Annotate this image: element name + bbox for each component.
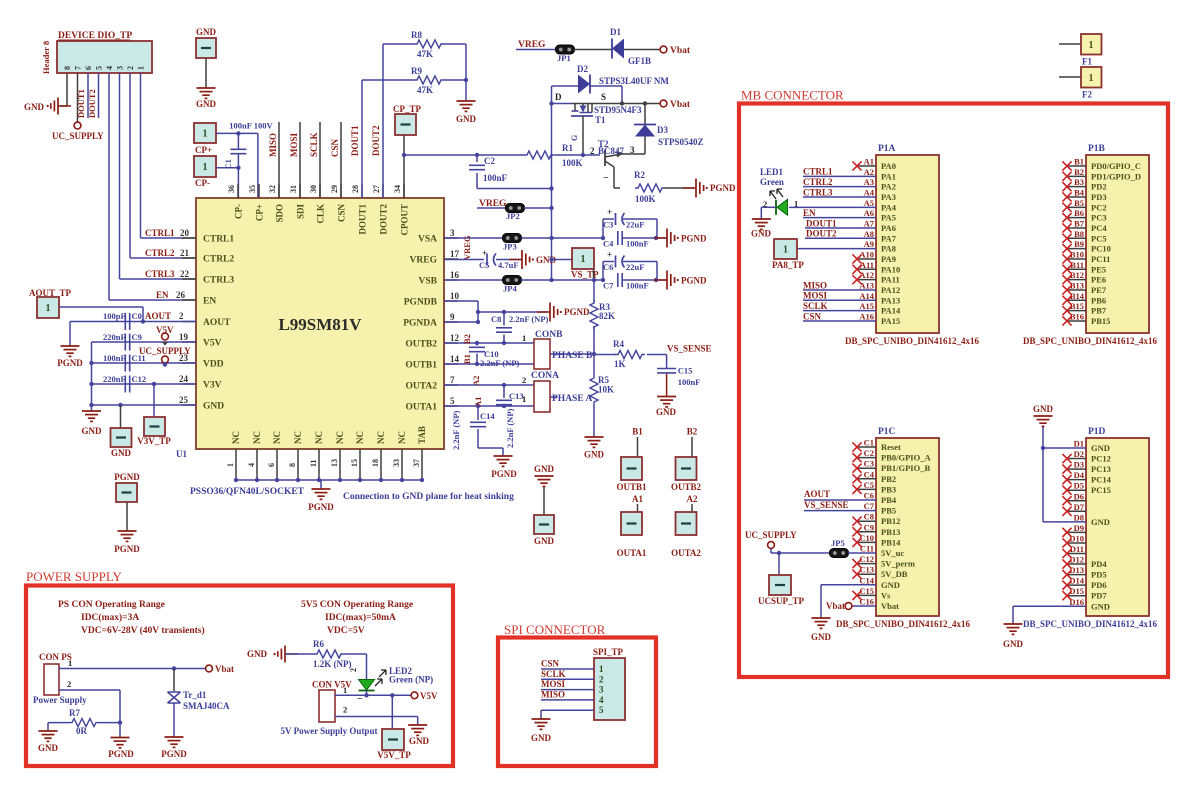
- svg-text:C7: C7: [864, 501, 875, 511]
- svg-text:2.2nF (NP): 2.2nF (NP): [505, 408, 515, 448]
- svg-text:VREG: VREG: [410, 256, 438, 266]
- svg-text:B9: B9: [1074, 239, 1084, 249]
- svg-text:PB0/GPIO_A: PB0/GPIO_A: [881, 453, 931, 463]
- svg-text:22uF: 22uF: [626, 262, 644, 272]
- svg-text:Green (NP): Green (NP): [389, 675, 433, 685]
- svg-text:GND: GND: [534, 536, 555, 546]
- svg-text:Reset: Reset: [881, 442, 901, 452]
- svg-text:PGND: PGND: [681, 276, 707, 286]
- svg-text:GND: GND: [656, 407, 677, 417]
- svg-text:GND: GND: [1003, 639, 1024, 649]
- svg-text:PA7: PA7: [881, 233, 897, 243]
- svg-text:1.2K (NP): 1.2K (NP): [313, 659, 352, 669]
- svg-text:CP_TP: CP_TP: [393, 104, 422, 114]
- svg-text:D3: D3: [1074, 460, 1084, 470]
- svg-text:0R: 0R: [76, 726, 88, 736]
- svg-text:D2: D2: [1074, 449, 1084, 459]
- svg-text:PGND: PGND: [161, 749, 187, 759]
- svg-text:PA10: PA10: [881, 264, 900, 274]
- svg-text:A2: A2: [864, 167, 874, 177]
- svg-text:R7: R7: [69, 708, 80, 718]
- svg-text:14: 14: [450, 354, 460, 364]
- svg-text:PGND: PGND: [564, 307, 590, 317]
- svg-text:B1: B1: [462, 354, 472, 364]
- svg-text:PB4: PB4: [881, 495, 897, 505]
- svg-text:C14: C14: [480, 411, 495, 421]
- svg-text:D1: D1: [610, 27, 621, 37]
- svg-text:1: 1: [581, 254, 586, 265]
- svg-text:B2: B2: [462, 334, 472, 344]
- svg-text:7: 7: [74, 66, 83, 70]
- svg-text:1: 1: [783, 245, 788, 256]
- svg-text:B7: B7: [1074, 218, 1085, 228]
- svg-text:PGND: PGND: [108, 749, 134, 759]
- svg-text:5V_DB: 5V_DB: [881, 569, 908, 579]
- svg-text:5V5 CON Operating Range: 5V5 CON Operating Range: [301, 600, 413, 610]
- svg-text:STPS3L40UF NM: STPS3L40UF NM: [599, 76, 669, 86]
- svg-text:1: 1: [137, 66, 146, 70]
- svg-text:36: 36: [227, 185, 236, 193]
- svg-text:30: 30: [309, 185, 318, 193]
- svg-text:CP+: CP+: [195, 145, 212, 155]
- svg-text:GND: GND: [1091, 601, 1110, 611]
- svg-text:16: 16: [450, 270, 460, 280]
- svg-text:2: 2: [763, 199, 767, 209]
- svg-text:GND: GND: [203, 402, 224, 412]
- svg-text:CP+: CP+: [255, 204, 265, 221]
- svg-text:NC: NC: [376, 431, 386, 444]
- svg-text:PB15: PB15: [1091, 316, 1110, 326]
- svg-text:CON PS: CON PS: [39, 652, 72, 662]
- svg-text:2: 2: [343, 705, 347, 715]
- svg-text:IDC(max)=3A: IDC(max)=3A: [81, 612, 139, 623]
- svg-text:9: 9: [450, 312, 455, 322]
- svg-text:C9: C9: [864, 522, 874, 532]
- svg-text:V5V_TP: V5V_TP: [377, 750, 411, 760]
- svg-text:13: 13: [330, 459, 339, 467]
- svg-text:B14: B14: [1070, 291, 1085, 301]
- svg-text:OUTB2: OUTB2: [405, 340, 437, 350]
- svg-text:CSN: CSN: [337, 204, 347, 223]
- svg-text:U1: U1: [176, 449, 187, 459]
- svg-text:D1: D1: [1074, 439, 1084, 449]
- svg-text:PC4: PC4: [1091, 223, 1107, 233]
- svg-text:MISO: MISO: [803, 280, 827, 290]
- svg-text:Tr_d1: Tr_d1: [183, 690, 207, 700]
- svg-text:+: +: [607, 250, 612, 260]
- svg-text:UCSUP_TP: UCSUP_TP: [758, 596, 805, 606]
- svg-text:GND: GND: [881, 580, 900, 590]
- svg-text:−: −: [357, 694, 363, 705]
- svg-text:DOUT2: DOUT2: [371, 125, 381, 156]
- svg-text:VS_SENSE: VS_SENSE: [804, 500, 849, 510]
- svg-text:GND: GND: [1091, 443, 1110, 453]
- svg-text:PA11: PA11: [881, 275, 900, 285]
- svg-text:P1D: P1D: [1088, 427, 1106, 437]
- svg-text:47K: 47K: [417, 49, 433, 59]
- svg-text:B15: B15: [1070, 301, 1084, 311]
- svg-text:OUTA1: OUTA1: [406, 403, 438, 413]
- svg-text:GF1B: GF1B: [628, 56, 651, 66]
- svg-text:PC14: PC14: [1091, 475, 1112, 485]
- svg-text:PD4: PD4: [1091, 559, 1107, 569]
- svg-text:100pF: 100pF: [103, 311, 126, 321]
- svg-text:+: +: [607, 207, 612, 217]
- svg-text:PD5: PD5: [1091, 570, 1107, 580]
- svg-text:SMAJ40CA: SMAJ40CA: [183, 701, 230, 711]
- svg-text:PB1/GPIO_B: PB1/GPIO_B: [881, 463, 930, 473]
- svg-text:C11: C11: [860, 544, 874, 554]
- svg-text:PHASE A: PHASE A: [552, 394, 593, 404]
- svg-text:PD0/GPIO_C: PD0/GPIO_C: [1091, 161, 1141, 171]
- svg-text:5V_perm: 5V_perm: [881, 559, 915, 569]
- svg-text:PC12: PC12: [1091, 454, 1111, 464]
- svg-text:C0: C0: [132, 311, 142, 321]
- svg-text:19: 19: [179, 332, 189, 342]
- svg-text:1: 1: [46, 303, 51, 314]
- svg-text:B2: B2: [687, 427, 698, 437]
- svg-text:CTRL3: CTRL3: [145, 269, 175, 279]
- svg-text:R1: R1: [562, 143, 573, 153]
- svg-text:Vbat: Vbat: [215, 664, 234, 674]
- svg-text:PGND: PGND: [114, 472, 140, 482]
- svg-text:R2: R2: [634, 170, 645, 180]
- svg-text:R8: R8: [411, 30, 422, 40]
- svg-text:3: 3: [599, 685, 604, 695]
- svg-text:T1: T1: [595, 115, 606, 125]
- svg-text:PA0: PA0: [881, 161, 896, 171]
- svg-text:1: 1: [522, 333, 526, 343]
- svg-text:PC10: PC10: [1091, 244, 1111, 254]
- svg-text:34: 34: [393, 185, 402, 193]
- svg-text:100K: 100K: [562, 158, 583, 168]
- svg-text:26: 26: [176, 290, 186, 300]
- svg-text:C6: C6: [603, 262, 613, 272]
- svg-text:BC847: BC847: [598, 146, 625, 156]
- svg-text:23: 23: [179, 353, 189, 363]
- svg-text:PA13: PA13: [881, 295, 900, 305]
- svg-text:B3: B3: [1074, 177, 1084, 187]
- svg-text:D3: D3: [657, 125, 668, 135]
- svg-text:47K: 47K: [417, 85, 433, 95]
- svg-text:CTRL2: CTRL2: [203, 255, 234, 265]
- svg-text:PA9: PA9: [881, 254, 896, 264]
- svg-text:C6: C6: [864, 491, 874, 501]
- svg-text:GND: GND: [584, 450, 605, 460]
- svg-text:PGND: PGND: [491, 469, 517, 479]
- svg-text:A1: A1: [864, 157, 874, 167]
- svg-text:1: 1: [599, 664, 604, 674]
- svg-text:11: 11: [309, 459, 318, 467]
- svg-text:5: 5: [95, 66, 104, 70]
- svg-text:2: 2: [590, 146, 595, 156]
- svg-text:−: −: [603, 173, 609, 184]
- svg-text:C3: C3: [864, 459, 874, 469]
- svg-text:C8: C8: [491, 314, 501, 324]
- svg-text:8: 8: [288, 463, 297, 467]
- svg-text:SPI CONNECTOR: SPI CONNECTOR: [504, 622, 606, 637]
- svg-text:6: 6: [84, 66, 93, 70]
- svg-text:A1: A1: [473, 397, 483, 407]
- svg-text:PD6: PD6: [1091, 580, 1107, 590]
- svg-text:B5: B5: [1074, 198, 1084, 208]
- svg-text:B8: B8: [1074, 229, 1084, 239]
- svg-text:1: 1: [68, 658, 72, 668]
- svg-text:4: 4: [247, 463, 256, 467]
- svg-text:2.2nF (NP): 2.2nF (NP): [451, 410, 461, 450]
- svg-text:2: 2: [599, 674, 604, 684]
- svg-text:10K: 10K: [598, 385, 614, 395]
- svg-text:2: 2: [349, 668, 358, 672]
- svg-text:NC: NC: [355, 431, 365, 444]
- svg-text:DB_SPC_UNIBO_DIN41612_4x16: DB_SPC_UNIBO_DIN41612_4x16: [1023, 619, 1158, 629]
- svg-text:Vbat: Vbat: [670, 46, 691, 56]
- svg-text:5: 5: [450, 396, 455, 406]
- svg-text:28: 28: [351, 185, 360, 193]
- svg-text:1: 1: [226, 463, 235, 467]
- svg-text:PB6: PB6: [1091, 295, 1106, 305]
- svg-text:V5V: V5V: [203, 339, 222, 349]
- svg-text:PHASE B: PHASE B: [552, 351, 593, 361]
- svg-text:32: 32: [268, 185, 277, 193]
- svg-text:NC: NC: [231, 431, 241, 444]
- svg-text:SPI_TP: SPI_TP: [593, 647, 624, 657]
- svg-text:C3: C3: [603, 220, 613, 230]
- svg-text:PA8_TP: PA8_TP: [772, 260, 804, 270]
- svg-text:GND: GND: [1091, 517, 1110, 527]
- svg-text:CTRL3: CTRL3: [203, 276, 234, 286]
- svg-text:MOSI: MOSI: [541, 679, 566, 689]
- svg-text:CTRL1: CTRL1: [803, 167, 833, 177]
- svg-text:1: 1: [1089, 73, 1094, 84]
- svg-text:PA5: PA5: [881, 213, 896, 223]
- svg-text:Header 8: Header 8: [41, 41, 51, 74]
- svg-text:LED1: LED1: [760, 167, 784, 177]
- svg-text:PD2: PD2: [1091, 182, 1107, 192]
- svg-text:27: 27: [372, 185, 381, 193]
- svg-text:VREG: VREG: [518, 40, 546, 50]
- svg-text:C1: C1: [864, 438, 874, 448]
- svg-text:OUTA2: OUTA2: [671, 548, 701, 558]
- svg-text:PC5: PC5: [1091, 233, 1107, 243]
- svg-text:100nF 100V: 100nF 100V: [229, 121, 273, 131]
- svg-text:B1: B1: [1074, 157, 1084, 167]
- svg-text:DOUT1: DOUT1: [358, 204, 368, 235]
- svg-text:100K: 100K: [635, 194, 656, 204]
- svg-text:1: 1: [794, 199, 798, 209]
- svg-text:VSB: VSB: [419, 277, 438, 287]
- svg-text:GND: GND: [811, 632, 832, 642]
- svg-text:220nF: 220nF: [103, 374, 126, 384]
- svg-text:1: 1: [203, 129, 208, 140]
- svg-text:C2: C2: [484, 156, 495, 166]
- svg-text:PGND: PGND: [681, 234, 707, 244]
- svg-text:G: G: [570, 135, 579, 141]
- svg-text:PD7: PD7: [1091, 591, 1107, 601]
- svg-text:PGND: PGND: [308, 502, 334, 512]
- svg-text:4: 4: [105, 66, 114, 70]
- svg-text:B6: B6: [1074, 208, 1084, 218]
- svg-text:PA1: PA1: [881, 171, 896, 181]
- svg-text:AOUT: AOUT: [804, 489, 830, 499]
- svg-text:2: 2: [179, 311, 184, 321]
- svg-text:PD3: PD3: [1091, 192, 1107, 202]
- svg-text:SCLK: SCLK: [541, 669, 566, 679]
- svg-text:PC3: PC3: [1091, 213, 1107, 223]
- svg-text:R6: R6: [313, 639, 324, 649]
- svg-text:B16: B16: [1070, 311, 1084, 321]
- svg-text:VSA: VSA: [418, 235, 437, 245]
- svg-text:DOUT2: DOUT2: [806, 229, 837, 239]
- svg-text:100nF: 100nF: [103, 353, 126, 363]
- svg-text:PE7: PE7: [1091, 285, 1107, 295]
- svg-text:OUTA1: OUTA1: [617, 548, 647, 558]
- svg-text:DB_SPC_UNIBO_DIN41612_4x16: DB_SPC_UNIBO_DIN41612_4x16: [845, 336, 980, 346]
- svg-text:B4: B4: [1074, 187, 1085, 197]
- svg-text:A2: A2: [687, 494, 698, 504]
- svg-text:PS CON Operating Range: PS CON Operating Range: [58, 600, 165, 610]
- svg-text:CSN: CSN: [803, 311, 822, 321]
- svg-text:D7: D7: [1074, 502, 1085, 512]
- svg-text:D: D: [555, 92, 562, 102]
- svg-text:10: 10: [450, 291, 460, 301]
- svg-text:A6: A6: [864, 208, 874, 218]
- svg-text:D9: D9: [1074, 523, 1084, 533]
- svg-text:4.7uF: 4.7uF: [498, 260, 519, 270]
- svg-text:35: 35: [248, 185, 257, 193]
- svg-text:AOUT: AOUT: [145, 311, 171, 321]
- svg-text:DOUT1: DOUT1: [350, 125, 360, 156]
- svg-text:PGNDB: PGNDB: [404, 298, 438, 308]
- svg-text:1K: 1K: [614, 359, 626, 369]
- svg-text:3: 3: [116, 66, 125, 70]
- svg-text:18: 18: [371, 459, 380, 467]
- svg-text:GND: GND: [247, 649, 268, 659]
- svg-text:B1: B1: [632, 427, 643, 437]
- svg-text:GND: GND: [82, 426, 103, 436]
- svg-text:100nF: 100nF: [483, 173, 508, 183]
- svg-text:DOUT2: DOUT2: [87, 89, 97, 118]
- svg-text:Connection to GND plane for he: Connection to GND plane for heat sinking: [343, 492, 514, 502]
- svg-text:Vbat: Vbat: [670, 100, 691, 110]
- svg-text:NC: NC: [335, 431, 345, 444]
- svg-text:MB CONNECTOR: MB CONNECTOR: [741, 88, 844, 103]
- svg-text:NC: NC: [252, 431, 262, 444]
- svg-text:V5V: V5V: [420, 691, 438, 701]
- svg-text:PA4: PA4: [881, 202, 897, 212]
- svg-text:PA3: PA3: [881, 192, 896, 202]
- svg-text:DOUT1: DOUT1: [76, 89, 86, 118]
- svg-text:D4: D4: [1074, 470, 1085, 480]
- svg-text:CLK: CLK: [316, 204, 326, 224]
- svg-text:GND: GND: [24, 102, 45, 112]
- svg-text:A3: A3: [864, 177, 874, 187]
- svg-text:P1A: P1A: [878, 144, 896, 154]
- svg-text:DB_SPC_UNIBO_DIN41612_4x16: DB_SPC_UNIBO_DIN41612_4x16: [1023, 336, 1158, 346]
- svg-text:2: 2: [126, 66, 135, 70]
- svg-text:GND: GND: [531, 733, 552, 743]
- svg-text:SCLK: SCLK: [309, 132, 319, 157]
- svg-text:VREG: VREG: [462, 235, 472, 260]
- svg-text:3: 3: [450, 228, 455, 238]
- svg-text:Vbat: Vbat: [881, 601, 899, 611]
- svg-text:C12: C12: [132, 374, 147, 384]
- svg-text:CP-: CP-: [234, 204, 244, 219]
- svg-text:MOSI: MOSI: [289, 132, 299, 157]
- svg-text:B13: B13: [1070, 280, 1084, 290]
- svg-text:C14: C14: [859, 575, 874, 585]
- svg-text:PC15: PC15: [1091, 485, 1111, 495]
- svg-text:R4: R4: [613, 339, 624, 349]
- svg-text:B2: B2: [1074, 167, 1084, 177]
- svg-text:1: 1: [343, 685, 347, 695]
- svg-text:B11: B11: [1070, 260, 1084, 270]
- svg-text:37: 37: [412, 459, 421, 467]
- svg-text:L99SM81V: L99SM81V: [278, 315, 362, 334]
- svg-text:15: 15: [350, 459, 359, 467]
- svg-text:Vbat: Vbat: [826, 601, 845, 611]
- svg-text:MOSI: MOSI: [803, 291, 828, 301]
- svg-text:29: 29: [330, 185, 339, 193]
- svg-text:C5: C5: [479, 260, 489, 270]
- svg-text:A2: A2: [471, 376, 481, 386]
- svg-text:2: 2: [67, 679, 71, 689]
- svg-text:UC_SUPPLY: UC_SUPPLY: [52, 131, 104, 141]
- svg-text:PE6: PE6: [1091, 275, 1106, 285]
- svg-text:A16: A16: [859, 311, 874, 321]
- svg-text:NC: NC: [314, 431, 324, 444]
- svg-text:D5: D5: [1074, 481, 1084, 491]
- svg-text:GND: GND: [196, 27, 217, 37]
- svg-text:R5: R5: [598, 375, 609, 385]
- svg-text:CTRL1: CTRL1: [203, 235, 234, 245]
- svg-text:100nF: 100nF: [678, 377, 701, 387]
- svg-text:C16: C16: [859, 597, 874, 607]
- svg-text:JP2: JP2: [506, 211, 520, 221]
- svg-text:1: 1: [1089, 40, 1094, 51]
- svg-text:GND: GND: [111, 448, 132, 458]
- svg-text:D6: D6: [1074, 491, 1084, 501]
- svg-text:100nF: 100nF: [626, 281, 649, 291]
- svg-text:DOUT2: DOUT2: [379, 204, 389, 235]
- svg-text:MISO: MISO: [541, 689, 565, 699]
- svg-text:PA6: PA6: [881, 223, 896, 233]
- svg-text:A7: A7: [864, 218, 875, 228]
- svg-text:C15: C15: [678, 366, 693, 376]
- svg-text:PA2: PA2: [881, 182, 896, 192]
- svg-text:CP-: CP-: [195, 178, 210, 188]
- svg-text:CTRL1: CTRL1: [145, 228, 175, 238]
- svg-text:CSN: CSN: [541, 659, 560, 669]
- svg-text:17: 17: [450, 249, 460, 259]
- svg-text:31: 31: [289, 185, 298, 193]
- svg-text:A15: A15: [859, 301, 874, 311]
- svg-text:PB7: PB7: [1091, 306, 1107, 316]
- svg-text:A8: A8: [864, 229, 874, 239]
- svg-text:IDC(max)=50mA: IDC(max)=50mA: [325, 612, 396, 623]
- svg-text:V3V_TP: V3V_TP: [137, 436, 171, 446]
- svg-text:R9: R9: [411, 66, 422, 76]
- svg-text:PB13: PB13: [881, 527, 900, 537]
- svg-text:6: 6: [267, 463, 276, 467]
- svg-text:4: 4: [599, 695, 604, 705]
- svg-text:A4: A4: [864, 187, 875, 197]
- svg-text:GND: GND: [196, 99, 217, 109]
- svg-text:D8: D8: [1074, 512, 1084, 522]
- svg-text:CONA: CONA: [531, 371, 559, 381]
- svg-text:UC_SUPPLY: UC_SUPPLY: [745, 530, 797, 540]
- svg-text:C4: C4: [603, 239, 614, 249]
